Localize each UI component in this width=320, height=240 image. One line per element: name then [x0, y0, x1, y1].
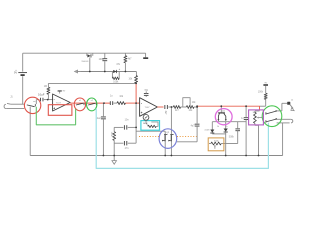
svg-text:1M: 1M: [44, 86, 47, 88]
svg-text:-: -: [141, 101, 142, 105]
svg-text:100k: 100k: [113, 81, 119, 83]
svg-text:4148: 4148: [204, 129, 210, 131]
svg-text:-: -: [54, 97, 55, 101]
svg-text:TL07: TL07: [56, 103, 62, 105]
svg-text:+: +: [53, 106, 55, 110]
svg-text:0.1uF: 0.1uF: [38, 94, 45, 97]
svg-text:a2: a2: [91, 100, 93, 102]
svg-text:1N4001: 1N4001: [81, 61, 89, 63]
svg-text:100u: 100u: [99, 58, 105, 61]
svg-text:a1: a1: [79, 100, 81, 102]
svg-text:4k7: 4k7: [128, 58, 133, 61]
svg-text:TL07: TL07: [145, 107, 151, 109]
svg-text:100k: 100k: [258, 92, 264, 94]
svg-text:500k: 500k: [229, 136, 235, 138]
svg-text:100K: 100K: [143, 123, 148, 125]
svg-text:+: +: [141, 111, 143, 115]
